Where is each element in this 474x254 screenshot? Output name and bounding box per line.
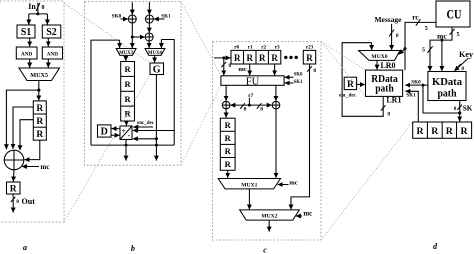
junction In [36,12,39,15]
svg-text:8: 8 [228,63,231,69]
block KData path [428,72,466,101]
svg-text:R: R [246,53,253,63]
wire input tap to FU [223,58,225,75]
wire D to alu [111,134,120,136]
signal SK1 d [406,91,419,122]
wire R column to ALU [125,121,127,126]
svg-text:MUX2: MUX2 [261,214,277,220]
svg-text:R: R [225,133,232,143]
svg-text:R: R [460,126,468,137]
mux MUX2 [240,210,300,220]
signal mc into MUX2 [303,210,312,218]
svg-text:Message: Message [375,15,403,24]
svg-text:AND: AND [47,51,58,57]
alu add-sub [120,126,132,140]
label c [263,246,267,254]
signal enc_dec d [339,94,357,99]
svg-text:r23: r23 [306,45,314,51]
leader a to G top [64,3,150,63]
signal SK1 [161,13,171,19]
wire Out [12,194,14,213]
xor circle b3 [145,33,153,41]
signal SK0 d [405,84,428,86]
register column c (4 R) [220,118,235,170]
svg-text:mc: mc [303,210,312,218]
xor circle b1 [128,15,136,23]
svg-text:path: path [375,83,394,95]
svg-text:AND: AND [21,51,32,57]
svg-text:b: b [131,244,135,253]
wire FU out left [225,85,227,101]
signal Message [375,15,403,24]
wire split to S1/S2 [29,13,48,15]
mux MUX3 [116,49,136,56]
bus slash 8 right [257,103,262,109]
svg-text:r2: r2 [261,45,266,51]
svg-text:8: 8 [260,107,263,113]
label a [23,243,27,252]
wire bottom rail b [91,144,174,146]
node In [28,2,36,11]
wire b1 down to MUX3 [131,23,133,48]
register row d (4 R) [413,122,472,138]
wire R3 to xor right [25,140,40,159]
wire b3 to MUX4 [148,41,150,48]
bus slash 8 left [240,103,245,109]
wire AND2 to MUX5 [47,59,49,68]
svg-text:Key: Key [459,50,474,59]
wire r7 to xor right [249,104,271,106]
svg-text:R: R [125,79,132,89]
wire S1 to AND1 [29,38,31,46]
svg-text:8: 8 [387,112,390,118]
svg-text:r3: r3 [275,45,280,51]
wire r7 to xor left [230,104,249,106]
svg-text:SK1: SK1 [406,93,416,99]
svg-text:SK0: SK0 [411,80,421,86]
signal enc_dec [137,121,155,126]
svg-text:5: 5 [457,32,460,38]
register R enc [344,77,356,89]
register column a (3 R) [33,101,46,140]
wire r1 tap to FU [249,64,251,75]
wire rc to MUX0 [399,49,405,54]
wire LR0 [376,60,378,69]
svg-text:a: a [23,243,27,252]
svg-text:CU: CU [447,7,462,21]
svg-text:LR0: LR0 [380,61,395,70]
wire LR1 loop [342,43,383,117]
svg-text:8: 8 [454,106,457,112]
svg-text:8: 8 [461,66,464,72]
svg-text:8: 8 [244,107,247,113]
register R out [7,182,21,194]
svg-text:S1: S1 [21,27,32,38]
labels r0 r1 r2 r3 [234,45,313,51]
svg-text:8: 8 [396,33,399,39]
leader a to G bottom [64,75,150,223]
svg-text:SK1: SK1 [294,80,303,85]
wire xor c2 to MUX1 [275,109,277,178]
svg-text:enc_dec: enc_dec [137,121,155,126]
wire FU out right [275,85,277,101]
signal mc [442,27,452,40]
svg-text:-: - [128,132,131,140]
xor circle a [4,150,24,170]
wire MUX1 to MUX2 [248,189,250,210]
label d [433,242,438,251]
junction [37,89,40,92]
wire alu to D [112,128,120,130]
wire MUX5 output [38,81,40,101]
wire In vertical [37,3,39,14]
wire MUX4 to G [154,55,156,62]
signal Key [459,50,474,59]
leader c to RData top [321,42,366,71]
svg-text:R: R [271,53,278,63]
svg-text:MUX0: MUX0 [371,54,387,60]
dashed zoom box a [0,1,64,222]
signal mc into MUX1 [289,179,297,186]
svg-text:R: R [259,53,266,63]
wire S2 to AND2 [47,38,49,46]
svg-text:R: R [125,94,132,104]
leader c to RData bottom-left [321,42,366,97]
wire G drop [155,75,157,146]
svg-text:FU: FU [246,77,260,88]
block S1 [17,25,35,38]
svg-text:R: R [125,64,132,74]
block FU [221,76,284,86]
svg-text:S2: S2 [46,27,57,38]
svg-text:R: R [36,130,43,140]
wire alu output down [125,140,127,146]
svg-text:mc: mc [238,66,246,73]
wire right rail to alu [133,130,174,132]
dashed zoom box b [85,1,182,165]
register row r0-r3 [231,50,281,64]
xor circle c1 [222,101,230,109]
block G [150,63,164,75]
wire feedback left b [91,40,120,145]
svg-text:R: R [225,146,232,156]
leader b to FU top [181,1,221,75]
svg-text:R: R [125,109,132,119]
svg-text:c: c [263,246,267,254]
svg-text:path: path [438,87,457,99]
wire mc branch to KData left [430,40,442,68]
svg-text:MUX3: MUX3 [119,51,133,56]
mux MUX4 [145,49,165,56]
svg-text:MUX5: MUX5 [30,72,48,79]
svg-text:G: G [153,64,161,75]
leader b to FU bottom [181,85,221,165]
label b [131,244,135,253]
svg-text:SK0: SK0 [294,72,303,77]
wire MUX2 output [268,220,270,232]
svg-text:8: 8 [42,5,45,11]
svg-text:R: R [431,126,439,137]
wire feedback left [6,90,38,149]
dashed zoom box c [213,42,322,241]
svg-text:In: In [28,2,36,11]
wire G line to alu [133,138,157,140]
svg-text:R: R [36,104,43,114]
mux MUX0 [359,51,400,61]
register r23 [303,50,315,64]
svg-text:R: R [306,53,313,63]
svg-text:+: + [122,127,126,135]
mux MUX5 [19,68,60,81]
xor circle c2 [272,101,280,109]
svg-text:rc: rc [412,13,419,22]
svg-text:SK0: SK0 [112,13,122,19]
svg-text:MUX4: MUX4 [148,51,162,56]
wire branch to xor b3 [132,36,145,38]
wire r3 tap to FU [274,64,276,75]
svg-text:mc: mc [289,179,297,186]
svg-text:D: D [101,127,108,138]
bus slash 8 r23 [307,66,312,72]
label LR1 [386,95,401,104]
svg-text:KData: KData [432,76,462,88]
mux MUX1 [218,179,280,189]
bus slash 8 on In [36,3,40,11]
wire KData SK out [459,101,461,122]
bus slash 8 Out [11,197,16,202]
wire SK loop [423,85,460,113]
svg-text:SK: SK [463,104,473,112]
wire mc to KData [441,40,443,71]
svg-text:mc: mc [41,163,50,171]
signal SK1 into FU [294,80,303,85]
gate AND2 [42,47,62,59]
signal SK0 [112,13,122,19]
svg-text:R: R [347,80,354,90]
wire AND1 to MUX5 [29,59,31,68]
wire b2 to b3 [148,23,150,33]
wire input left [131,2,133,14]
block S2 [42,25,61,38]
wire xor to R out [12,170,15,182]
svg-text:R: R [416,126,424,137]
svg-text:R: R [446,126,454,137]
svg-text:R: R [36,117,43,127]
wire xor c1 to R column [225,109,227,118]
svg-text:5: 5 [422,48,425,54]
wire R to RData [357,84,365,86]
wire input c [214,57,231,59]
svg-text:R: R [234,53,241,63]
svg-text:r1: r1 [248,45,253,51]
svg-text:R: R [225,120,232,130]
block RData path [366,70,403,96]
svg-text:R: R [10,185,17,195]
svg-text:R: R [225,159,232,169]
svg-text:d: d [433,242,438,251]
wire tap R2 [20,120,33,150]
leader c to RData bottom-right [321,122,413,240]
signal r7 [248,93,253,99]
svg-text:8: 8 [16,199,19,205]
wire r23 drop [291,64,310,206]
signal mc into xor [22,166,39,168]
wire feedback right b [161,40,174,146]
ellipsis dots [284,56,287,59]
gate AND1 [16,47,37,59]
register column b (4 R) [121,62,135,122]
wire R column to MUX1 [227,170,229,178]
block CU [436,1,470,27]
signal mc into FU [238,66,246,73]
wire MUX3 to R column [125,55,127,61]
svg-text:8: 8 [313,68,316,74]
signal SK0 into FU [294,72,303,77]
svg-text:5: 5 [425,26,428,32]
wire output arrows b [125,145,127,161]
signal rc [412,13,419,22]
svg-text:MUX1: MUX1 [241,182,257,188]
svg-text:Out: Out [22,197,36,206]
svg-text:SK1: SK1 [161,13,171,19]
svg-text:enc_dec: enc_dec [339,94,357,99]
wire tap R1 [13,107,33,148]
xor circle b2 [145,15,153,23]
block D [98,125,112,137]
svg-text:r0: r0 [234,45,239,51]
wire input right [148,2,150,14]
